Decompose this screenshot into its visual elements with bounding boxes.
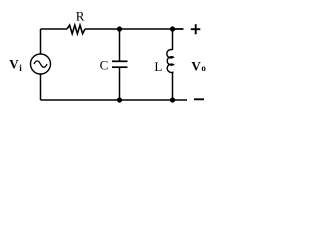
wire source top to top rail [40,29,42,54]
svg-text:C: C [100,57,109,72]
wire top rail to + terminal [173,28,184,30]
wire top-left segment [41,28,68,30]
wire resistor to node A [85,28,184,30]
svg-text:o: o [201,63,206,73]
+ terminal [191,28,201,30]
capacitor C [112,60,128,62]
sine wave inside source [34,61,47,67]
node A (top capacitor junction) [117,26,122,31]
bottom rail wire [41,99,188,101]
node C (bottom capacitor junction) [117,97,122,102]
svg-text:V: V [9,57,19,72]
svg-text:R: R [76,9,85,24]
wire inductor bottom lead [172,72,174,100]
wire inductor top lead [172,29,174,50]
svg-text:L: L [154,59,162,74]
inductor L (coil) [167,50,174,73]
node B (top inductor junction) [170,26,175,31]
wire capacitor bottom lead [119,67,121,100]
wire capacitor top lead [119,29,121,61]
wire source bottom lead [40,74,42,100]
- terminal [194,98,204,100]
resistor R [67,25,85,34]
source V_i (AC source circle) [31,54,51,74]
svg-text:V: V [191,59,201,74]
node D (bottom inductor junction) [170,97,175,102]
